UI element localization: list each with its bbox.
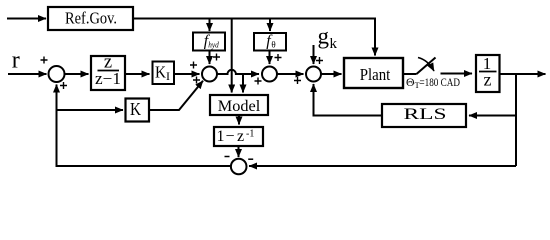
wire r into summing junction 1 bbox=[8, 73, 47, 75]
wire RLS output up into junction 3 bottom bbox=[314, 84, 383, 116]
summing junction 1 bbox=[49, 66, 65, 82]
wire long branch down from top line into Model bbox=[231, 19, 233, 93]
block K bbox=[126, 99, 150, 122]
block Model bbox=[210, 95, 268, 115]
block RLS bbox=[382, 104, 466, 127]
wire branch down into f_theta bbox=[269, 19, 271, 32]
plus sign at summing junction 1 bottom-right bbox=[60, 82, 67, 89]
svg-text:K: K bbox=[130, 99, 141, 119]
svg-text:Model: Model bbox=[218, 98, 261, 115]
svg-text:z: z bbox=[484, 70, 492, 90]
wire f_hyd down into summing junction 2 bbox=[209, 51, 211, 64]
svg-text:1: 1 bbox=[217, 128, 225, 145]
svg-text:RLS: RLS bbox=[404, 106, 447, 123]
svg-text:g: g bbox=[318, 23, 330, 48]
svg-text:Ref.Gov.: Ref.Gov. bbox=[65, 9, 117, 28]
svg-text:−: − bbox=[226, 128, 235, 145]
plus sign at junction 2 left bbox=[190, 62, 197, 69]
minus sign at junction 5 top-left bbox=[225, 156, 230, 158]
wire z/(z-1) to K_I bbox=[125, 73, 150, 75]
svg-text:k: k bbox=[330, 36, 338, 52]
label Theta_T=180 CAD bbox=[406, 75, 460, 90]
wire branch down into Model (right input) bbox=[242, 74, 244, 93]
svg-text:r: r bbox=[12, 48, 20, 74]
block z/(z-1) bbox=[91, 53, 125, 91]
summing junction 4 bbox=[262, 67, 277, 82]
svg-text:=180 CAD: =180 CAD bbox=[420, 75, 461, 89]
wire 1/z output to right edge bbox=[500, 73, 546, 75]
minus sign at junction 5 top-right bbox=[248, 158, 253, 160]
plus sign at junction 2 top-right bbox=[213, 54, 220, 61]
plus sign at junction 3 top-right bbox=[316, 57, 323, 64]
wire K_I to summing junction 2 bbox=[174, 73, 200, 75]
wire input arrow into Ref.Gov. bbox=[7, 18, 46, 20]
plus sign at junction 3 bottom-left bbox=[294, 77, 301, 84]
block 1/z bbox=[476, 54, 500, 92]
plus sign at summing junction 1 top-left bbox=[41, 57, 48, 64]
sampler switch closing arc arrow bbox=[418, 58, 434, 72]
wire g_k down into summing junction 3 bbox=[313, 45, 315, 64]
wire K output diagonal into junction 2 bbox=[149, 81, 203, 110]
plus sign at junction 4 top-right bbox=[275, 54, 282, 61]
block f_theta bbox=[254, 33, 286, 51]
plus sign at junction 2 bottom-left bbox=[193, 77, 200, 84]
wire junction 1 to z/(z-1) block bbox=[64, 73, 89, 75]
svg-text:hyd: hyd bbox=[208, 40, 219, 50]
wire f_theta down into summing junction 4 bbox=[269, 51, 271, 64]
wire branch down into f_hyd bbox=[209, 19, 211, 32]
wire branch into K block bbox=[57, 109, 124, 111]
wire right branch into RLS bbox=[469, 115, 516, 117]
svg-text:-1: -1 bbox=[246, 129, 254, 140]
wire Model down into 1-z^-1 block bbox=[238, 115, 240, 125]
svg-text:z−1: z−1 bbox=[95, 69, 121, 88]
plus sign at junction 4 bottom-left bbox=[255, 78, 262, 85]
block f_hyd bbox=[193, 33, 225, 51]
summing junction 2 bbox=[202, 67, 217, 82]
sampler switch arm bbox=[417, 58, 436, 75]
block 1-z^-1 bbox=[214, 127, 263, 146]
wire junction 2 to junction 4 with crossover hop bbox=[217, 70, 259, 74]
wire junction 5 output left and up into junction 1 bottom bbox=[57, 85, 232, 167]
wire sampler to 1/z block bbox=[441, 73, 473, 75]
svg-text:Θ: Θ bbox=[406, 75, 415, 89]
svg-text:I: I bbox=[166, 69, 170, 83]
block Plant bbox=[344, 58, 403, 88]
wire output branch down the right side bbox=[515, 74, 517, 166]
wire top line from Ref.Gov. to Plant top bbox=[133, 19, 375, 56]
svg-text:Plant: Plant bbox=[360, 65, 391, 84]
summing junction 5 bbox=[231, 159, 247, 175]
summing junction 3 bbox=[306, 67, 321, 82]
wire junction 3 to Plant bbox=[321, 73, 342, 75]
label g_k bbox=[318, 23, 338, 52]
svg-text:z: z bbox=[237, 128, 244, 145]
block K_I bbox=[153, 62, 175, 85]
block Ref.Gov. bbox=[48, 7, 133, 30]
svg-text:K: K bbox=[155, 62, 167, 81]
svg-text:θ: θ bbox=[271, 40, 275, 50]
wire junction 4 to junction 3 bbox=[277, 73, 304, 75]
wire bottom feedback from right branch into junction 5 bbox=[249, 165, 516, 167]
wire Plant output to sampler switch bbox=[403, 73, 417, 75]
wire 1-z^-1 down into summing junction 5 bbox=[238, 146, 240, 157]
